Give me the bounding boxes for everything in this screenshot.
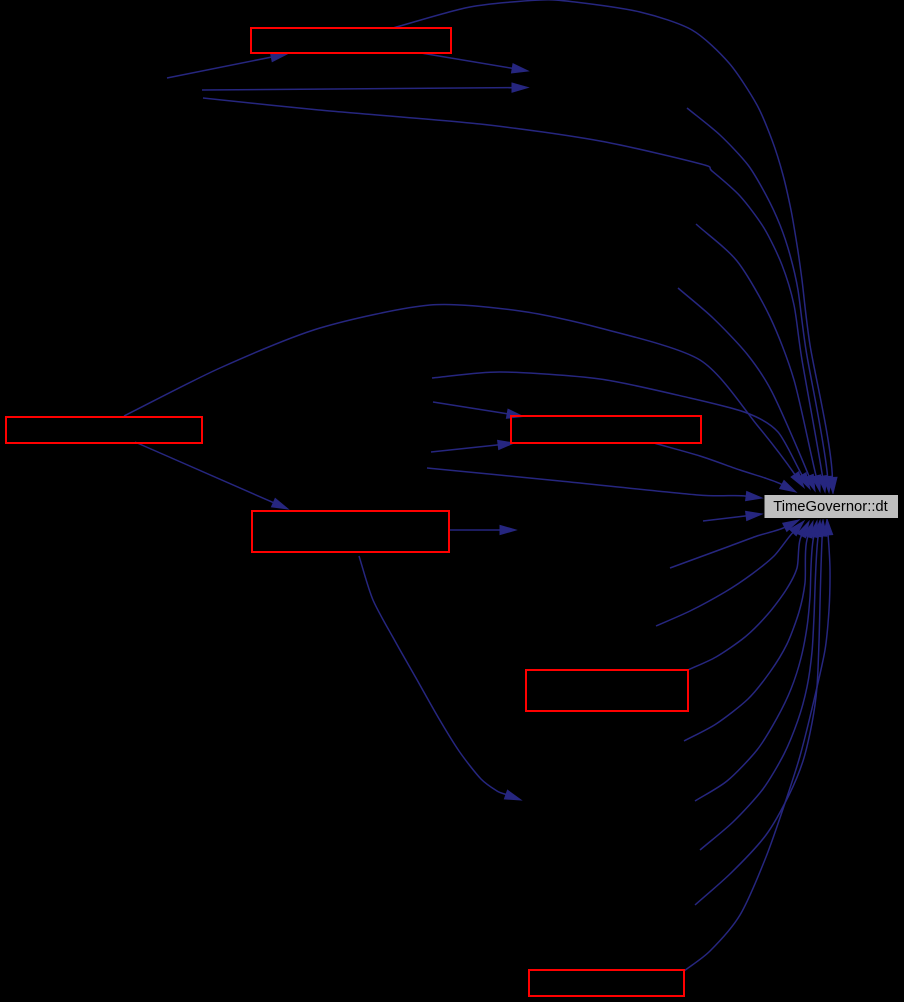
wire: invisible node to TimeGovernor::dt (bottom 1) (670, 527, 785, 568)
wire: invisible node to TimeGovernor::dt (bottom 6) (700, 536, 818, 850)
wire: invisible node to TimeGovernor::dt (arc 2) (687, 108, 828, 477)
wire: invisible node to TimeGovernor::dt (bottom 2) (656, 533, 793, 627)
wire: invisible node X2 to TimeGovernor::dt (432, 372, 802, 475)
node: lower-left red box (truncated caller) (252, 511, 449, 552)
wire: lower-left box to invisible node (long curve) (359, 556, 506, 795)
wire: invisible node X2 to middle box (433, 402, 507, 414)
wire: top box to invisible node Y1 (421, 53, 512, 68)
wire: invisible node to TimeGovernor::dt (arc 4) (678, 288, 809, 476)
wire: bottom box to TimeGovernor::dt (big bottom sweep) (684, 535, 830, 971)
node: bottom red box (truncated caller) (529, 970, 684, 996)
wire: lower-left box to invisible node (449, 529, 500, 531)
wire: invisible node to TimeGovernor::dt (bottom 5) (695, 537, 814, 801)
wire: invisible node X0 to top box (167, 57, 271, 78)
wire: invisible node to TimeGovernor::dt (bottom 7) (695, 536, 822, 905)
node: lower-middle red box (truncated caller) (526, 670, 688, 711)
node: middle red box (truncated caller) (511, 416, 701, 443)
node: left red box (truncated caller) (6, 417, 202, 443)
wire: invisible node to TimeGovernor::dt (arc 3) (696, 224, 816, 476)
wire: lower box to TimeGovernor::dt (688, 536, 802, 670)
node: top red box (truncated caller) (251, 28, 451, 53)
wire: middle box to TimeGovernor::dt (654, 443, 782, 485)
wire: invisible node to TimeGovernor::dt (bottom 4) (684, 537, 808, 741)
svg-text:TimeGovernor::dt: TimeGovernor::dt (773, 499, 888, 515)
wire: left box to TimeGovernor::dt (long left arc) (124, 304, 795, 474)
wire: node X1 to TimeGovernor::dt (long diagonal) (203, 98, 823, 476)
wire: invisible node X1 to invisible node Y1 (202, 88, 512, 90)
wire: invisible node X3 to middle box (431, 445, 498, 452)
node: TimeGovernor::dt (root) (764, 495, 899, 519)
wire: top box to TimeGovernor::dt (big top arc) (393, 0, 832, 478)
wire: invisible node X3 to TimeGovernor::dt (left edge) (427, 468, 746, 496)
wire: left box to lower-left box (135, 442, 273, 503)
wire: invisible node to TimeGovernor::dt (left edge lower) (703, 516, 746, 521)
